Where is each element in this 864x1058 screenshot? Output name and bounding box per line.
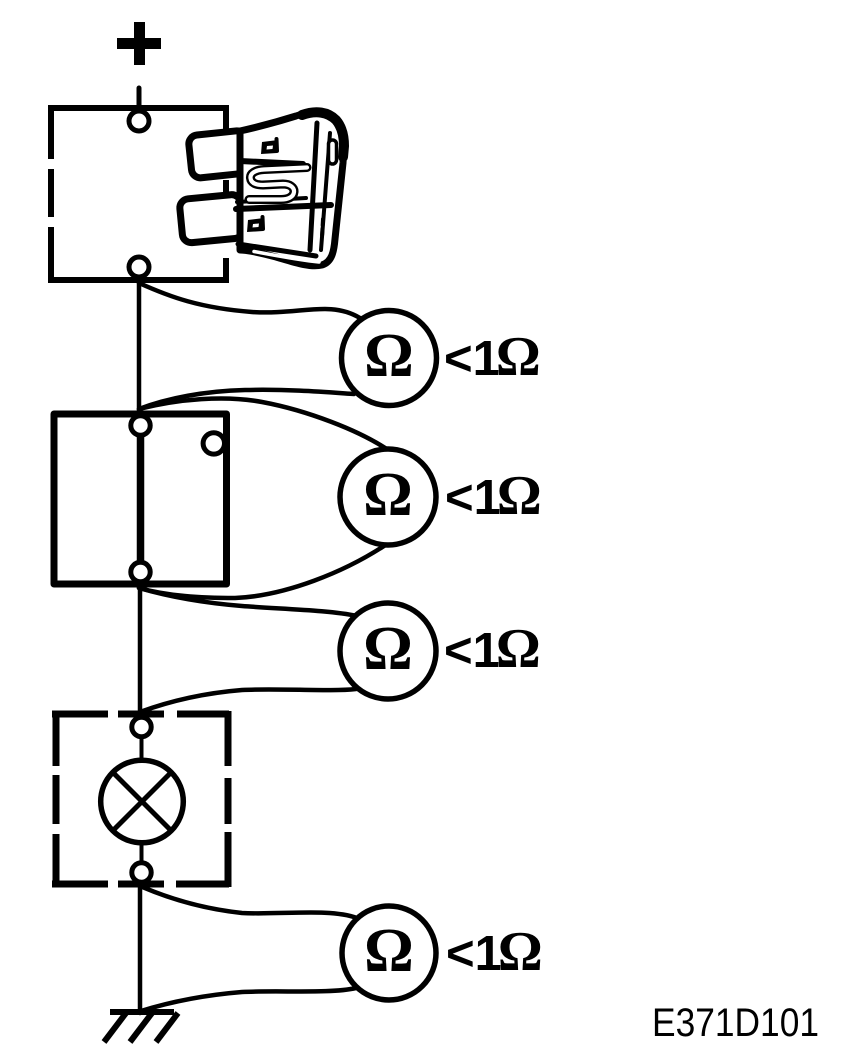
fuse illustration: lower blade terminal bbox=[179, 194, 244, 244]
fuse illustration: S-shaped fuse element (outlined ribbon) bbox=[249, 168, 307, 200]
svg-text:<1Ω: <1Ω bbox=[446, 921, 543, 983]
terminal (bottom) of switch box bbox=[131, 562, 150, 581]
svg-text:Ω: Ω bbox=[363, 615, 413, 683]
lamp symbol (circle with X) bbox=[101, 760, 184, 843]
terminal (bottom) of fuse box bbox=[129, 257, 149, 277]
terminal (top) of fuse box bbox=[129, 111, 149, 131]
fuse illustration: bottom skirt split line bbox=[254, 252, 319, 263]
wire: lamp box bottom to ground bbox=[138, 882, 143, 1013]
fuse illustration: side crease line bbox=[321, 133, 330, 250]
fuse illustration: window bottom divider bbox=[237, 198, 306, 202]
svg-text:Ω: Ω bbox=[363, 461, 413, 529]
lamp box (dashed rectangle) bbox=[52, 711, 229, 887]
test wire A: fuse box bottom terminal to ohmmeter M1 top bbox=[139, 283, 360, 318]
fuse illustration: inner bottom line bbox=[238, 244, 316, 256]
wire: lamp to lamp bottom terminal bbox=[140, 841, 144, 863]
wire: lamp top terminal to lamp bbox=[140, 737, 144, 761]
battery positive terminal (+) bbox=[117, 22, 161, 65]
terminal (top) of switch box bbox=[131, 416, 150, 435]
svg-text:<1Ω: <1Ω bbox=[444, 326, 541, 388]
ground symbol (chassis) bbox=[104, 1012, 178, 1042]
svg-text:Ω: Ω bbox=[364, 917, 414, 985]
test wire E: switch box bottom junction to ohmmeter M3 top bbox=[139, 588, 357, 616]
test wire G: lamp box bottom junction to ohmmeter M4 top bbox=[140, 886, 357, 918]
fuse box (dashed rectangle) bbox=[48, 108, 229, 283]
svg-text:<1Ω: <1Ω bbox=[444, 618, 541, 680]
test wire H: ground junction to ohmmeter M4 bottom bbox=[141, 988, 356, 1011]
terminal (bottom) of lamp box bbox=[132, 863, 151, 882]
terminal (top) of lamp box bbox=[132, 717, 151, 736]
test wire F: lamp box top junction to ohmmeter M3 bottom bbox=[140, 689, 356, 712]
test wire C: switch box top junction to ohmmeter M2 top bbox=[139, 398, 391, 452]
ohmmeter M2 circle bbox=[340, 449, 436, 545]
index hole on switch box bbox=[203, 433, 224, 454]
fuse illustration: slot on top-right corner bbox=[329, 140, 337, 164]
fuse illustration: housing body outline bbox=[240, 112, 344, 265]
switch contact bar bbox=[137, 433, 145, 565]
svg-text:<1Ω: <1Ω bbox=[445, 465, 542, 527]
fuse illustration: band line below window bbox=[236, 205, 331, 209]
ohmmeter M1 circle bbox=[342, 311, 437, 406]
ohmmeter M4 circle bbox=[342, 906, 436, 1000]
fuse illustration: amperage mark on bottom band bbox=[247, 217, 264, 232]
fuse illustration: front/side vertical edge bbox=[310, 123, 317, 250]
test wire D: switch box bottom junction to ohmmeter M2 bottom bbox=[139, 544, 387, 598]
switch/connector box (solid) bbox=[54, 414, 227, 584]
fuse illustration: upper blade terminal bbox=[188, 130, 249, 179]
fuse illustration: small dashes lower-right side bbox=[322, 219, 323, 237]
fuse illustration: heavy top-right corner bbox=[302, 112, 344, 157]
svg-text:E371D101: E371D101 bbox=[652, 1001, 819, 1045]
wire stub from + down to fuse box top terminal bbox=[137, 88, 142, 113]
test wire B: switch box top junction to ohmmeter M1 bottom bbox=[139, 390, 354, 409]
svg-text:Ω: Ω bbox=[364, 322, 414, 390]
fuse illustration: top band divider bbox=[240, 161, 303, 164]
wire: switch box bottom to lamp box top bbox=[138, 582, 143, 719]
wire: fuse box bottom to switch box top bbox=[137, 277, 142, 416]
fuse illustration: amperage mark on top band bbox=[261, 139, 278, 154]
ohmmeter M3 circle bbox=[340, 603, 436, 699]
